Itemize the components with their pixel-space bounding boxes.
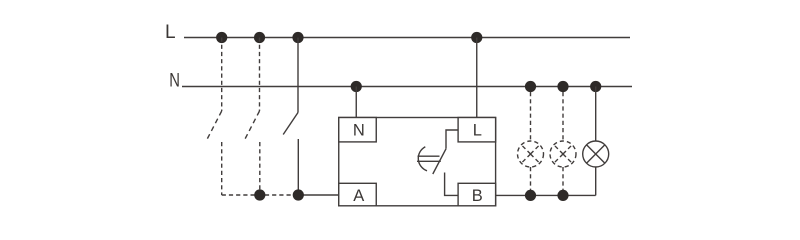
contact blade — [433, 149, 446, 174]
lamp E2 (optional, dashed) — [550, 92, 576, 190]
node: junction lamp E2 / bottom wire — [557, 190, 568, 201]
lamp E3 — [583, 87, 609, 196]
relay actuator arc — [418, 147, 427, 171]
node: junction S3 / bottom wire — [293, 189, 304, 200]
wire: bottom left to terminal A — [298, 194, 338, 196]
wire: terminal L to fixed contact — [446, 130, 458, 149]
node: junction L / device L terminal — [471, 32, 482, 43]
node: junction N / lamp E1 — [525, 81, 536, 92]
node: junction L / switch S1 — [216, 32, 227, 43]
wire: N line to terminal N — [355, 87, 357, 118]
node: junction lamp E1 / bottom wire — [525, 190, 536, 201]
wire: neutral line N — [182, 86, 632, 88]
switch S2 (optional, dashed) — [245, 38, 260, 196]
relay contact K1 inside U1 — [417, 130, 458, 195]
svg-text:N: N — [169, 70, 180, 91]
switch S1 (optional, dashed) — [207, 38, 222, 196]
terminal B of U1 — [458, 183, 496, 206]
wire: L line to terminal L — [476, 38, 478, 118]
node: junction L / switch S3 — [292, 32, 303, 43]
svg-text:L: L — [473, 121, 482, 139]
svg-text:B: B — [472, 187, 483, 205]
node: junction S2 / bottom wire — [254, 189, 265, 200]
svg-text:A: A — [353, 187, 364, 205]
wire: terminal B to lamps (bottom right) — [496, 194, 596, 196]
svg-text:L: L — [165, 22, 176, 43]
wire: lower fixed contact to terminal B — [445, 173, 459, 196]
terminal A of U1 — [339, 183, 377, 206]
lamp E1 (optional, dashed) — [518, 92, 544, 190]
switch S3 — [283, 38, 298, 196]
terminal N of U1 — [339, 118, 377, 142]
terminal L of U1 — [458, 118, 496, 142]
actuator link upper line — [418, 155, 440, 157]
node: junction N / lamp E2 — [557, 81, 568, 92]
node: junction N / device N terminal — [351, 81, 362, 92]
node: junction L / switch S2 — [254, 32, 265, 43]
actuator link lower line — [417, 160, 441, 162]
wire: phase line L — [184, 37, 630, 39]
svg-text:N: N — [353, 121, 365, 139]
wire: dashed return S1 to junction (bottom left) — [222, 194, 299, 196]
device box U1 (switching relay) — [339, 118, 496, 206]
node: junction N / lamp E3 — [590, 81, 601, 92]
